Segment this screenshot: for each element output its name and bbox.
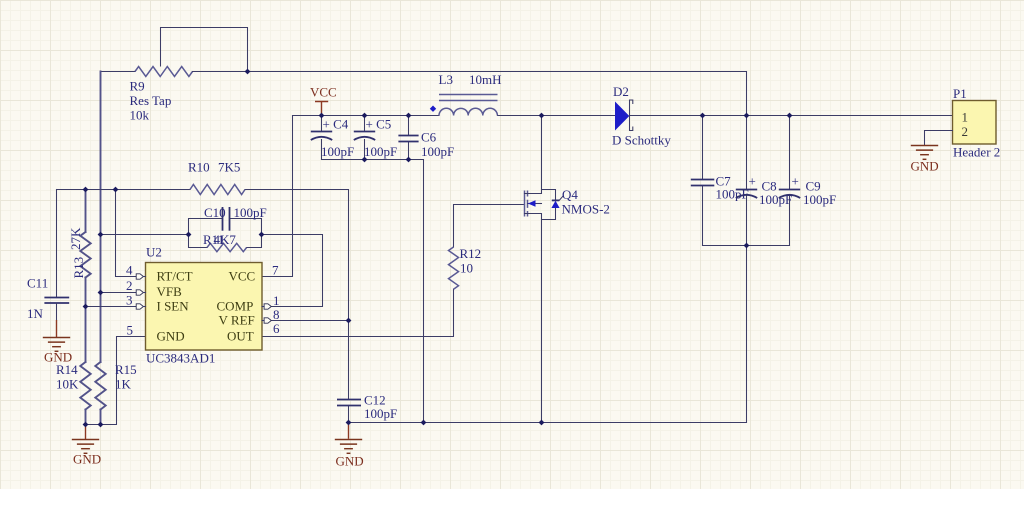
wire: C11 branch (56, 190, 58, 298)
resistor R13 (80, 232, 90, 278)
svg-text:10K: 10K (56, 377, 79, 392)
svg-text:27K: 27K (68, 227, 83, 250)
junction: rail / x747 bus (744, 113, 750, 119)
wire: C5 leads (364, 116, 366, 160)
capacitor C11 (44, 297, 69, 299)
wire: C6 leads (408, 116, 410, 160)
wire: C4 leads (321, 116, 323, 160)
wire: C12 bottom lead (348, 406, 350, 423)
ground under C11 (43, 337, 70, 339)
wire: bottom rail y=422.5 (349, 422, 747, 424)
svg-text:+: + (749, 174, 756, 189)
IC U2 UC3843AD1 (146, 263, 263, 351)
svg-text:C10: C10 (204, 205, 226, 220)
resistor R9 (135, 67, 193, 77)
wire: cap bottom rail + bus down x=423.5 (322, 160, 424, 423)
junction: R15 bottom (98, 422, 104, 428)
junction: R9 loop / top rail (245, 69, 251, 75)
wire: GND pin5 to bottom rail (86, 337, 146, 425)
svg-text:1: 1 (962, 110, 969, 125)
wire: OUT pin6 to R12 (262, 289, 454, 336)
svg-text:1: 1 (273, 293, 280, 308)
wire: R15 bottom lead (100, 410, 102, 425)
svg-text:U2: U2 (146, 245, 162, 260)
svg-text:+ C4: + C4 (323, 117, 349, 132)
svg-text:100pF: 100pF (803, 192, 836, 207)
wire: vertical x=100.5 R9/VFB/R15 chain (100, 72, 102, 363)
svg-text:VCC: VCC (310, 85, 337, 100)
junction: VCC rail / C4 (319, 113, 325, 119)
ground at P1 (911, 145, 938, 147)
svg-text:1N: 1N (27, 306, 44, 321)
junction: bottom rail / C12 (346, 420, 352, 426)
svg-text:R13: R13 (71, 257, 86, 279)
svg-text:4K7: 4K7 (214, 232, 237, 247)
junction: C10-R11 right node (259, 232, 265, 238)
svg-text:C6: C6 (421, 130, 437, 145)
ground under C12 (348, 423, 350, 439)
capacitor C12 (337, 399, 361, 401)
wire: R9 left lead (101, 71, 136, 73)
svg-text:COMP: COMP (217, 299, 254, 314)
svg-text:OUT: OUT (227, 329, 254, 344)
junction: rail / Q4 drain (539, 113, 545, 119)
svg-text:NMOS-2: NMOS-2 (562, 202, 610, 217)
junction: cap rail / x747 bus (744, 243, 750, 249)
junction: cap rail / C6 (406, 157, 412, 163)
wire: R9 tap loop (161, 28, 248, 72)
transistor Q4 (524, 191, 526, 217)
wire: vertical x=348.5 R10/VREF/C12 (348, 190, 350, 400)
svg-text:C11: C11 (27, 276, 48, 291)
svg-text:RT/CT: RT/CT (157, 269, 193, 284)
svg-text:GND: GND (336, 454, 364, 469)
wire: top rail R9 to x=746.5 (248, 71, 747, 73)
capacitor C5 (354, 131, 375, 133)
svg-text:UC3843AD1: UC3843AD1 (146, 351, 215, 366)
resistor R11 (207, 243, 247, 251)
U2 pin arrows (136, 274, 143, 279)
junction: cap rail / C5 (362, 157, 368, 163)
junction: VFB pin2 (98, 290, 104, 296)
svg-text:GND: GND (73, 452, 101, 467)
wire: pin4 branch (116, 190, 146, 277)
wire: C7 branch (702, 116, 704, 246)
svg-text:100pF: 100pF (364, 144, 397, 159)
svg-text:+ C5: + C5 (366, 117, 392, 132)
svg-text:2: 2 (962, 124, 969, 139)
svg-text:10k: 10k (130, 108, 150, 123)
svg-text:4: 4 (126, 263, 133, 278)
svg-text:10mH: 10mH (469, 72, 502, 87)
svg-text:+: + (792, 174, 799, 189)
wire: VFB pin2 (101, 292, 146, 294)
junction: C10-R11 left node (186, 232, 192, 238)
wire: P1 pin2 to ground (925, 131, 953, 145)
svg-text:P1: P1 (953, 86, 967, 101)
resistor R10 (190, 185, 245, 195)
capacitor C4 (311, 131, 332, 133)
svg-text:100pF: 100pF (321, 144, 354, 159)
resistor R14 (80, 362, 90, 410)
svg-text:2: 2 (126, 278, 133, 293)
junction: bottom rail / cap bus (421, 420, 427, 426)
svg-text:GND: GND (44, 350, 72, 365)
junction: rail / C7 (700, 113, 706, 119)
svg-text:5: 5 (127, 323, 134, 338)
svg-text:GND: GND (911, 159, 939, 174)
wire: main rail y=115.5 (293, 115, 953, 117)
svg-text:10: 10 (460, 261, 473, 276)
junction: bottom rail / Q4 source (539, 420, 545, 426)
junction: rail / C9 (787, 113, 793, 119)
wire: ISEN pin3 (86, 306, 146, 308)
junction: rail / C6 (406, 113, 412, 119)
junction: R10 wire / pin4 branch (113, 187, 119, 193)
wire: R13 chain verticals (85, 190, 87, 233)
junction: ISEN pin3 (83, 304, 89, 310)
wire: loop right node to COMP pin1 (262, 235, 323, 307)
svg-text:R12: R12 (460, 246, 482, 261)
svg-text:R9: R9 (130, 79, 145, 94)
svg-text:1K: 1K (115, 377, 132, 392)
capacitor C8 (736, 189, 757, 191)
wire: x=746.5 vertical top (746, 72, 748, 190)
junction: VFB bus / C10 net (98, 232, 104, 238)
wire: output caps bottom rail y=245.5 (703, 245, 790, 247)
svg-text:D Schottky: D Schottky (612, 133, 671, 148)
capacitor C7 (691, 179, 715, 181)
junction: R14 bottom (83, 422, 89, 428)
svg-text:100pF: 100pF (234, 205, 267, 220)
svg-text:100pF: 100pF (421, 144, 454, 159)
svg-text:L3: L3 (439, 72, 453, 87)
svg-text:100pF: 100pF (364, 406, 397, 421)
header P1 (953, 101, 997, 145)
svg-text:I SEN: I SEN (157, 299, 190, 314)
svg-text:Q4: Q4 (562, 187, 578, 202)
svg-text:7K5: 7K5 (218, 160, 240, 175)
power VCC (315, 102, 328, 116)
capacitor C10 (222, 207, 224, 231)
diode D2 (615, 102, 629, 131)
svg-text:VFB: VFB (157, 284, 183, 299)
svg-text:7: 7 (272, 263, 279, 278)
capacitor C9 (779, 189, 800, 191)
svg-text:V REF: V REF (219, 313, 255, 328)
ground under R14/R15 (85, 425, 87, 440)
wire: VCC pin7 riser (262, 116, 293, 277)
svg-text:R10: R10 (188, 160, 210, 175)
svg-text:GND: GND (157, 329, 185, 344)
svg-text:6: 6 (273, 321, 280, 336)
svg-text:8: 8 (273, 307, 280, 322)
svg-text:R15: R15 (115, 362, 137, 377)
wire: C10/R11 loop frame (189, 219, 262, 248)
wire: C10/R11 net from VFB vertical (101, 234, 189, 236)
svg-text:VCC: VCC (229, 269, 256, 284)
wire: R12 top to Q4 gate (454, 205, 525, 248)
wire: VREF pin8 (262, 320, 349, 322)
svg-text:Header 2: Header 2 (953, 145, 1000, 160)
wire: C9 branch (789, 116, 791, 246)
junction: rail / C5 (362, 113, 368, 119)
svg-text:Res Tap: Res Tap (130, 93, 172, 108)
junction: VREF pin8 (346, 318, 352, 324)
inductor L3 (439, 94, 498, 96)
junction: R10 wire / R13 (83, 187, 89, 193)
capacitor C6 (398, 135, 418, 137)
svg-text:D2: D2 (613, 84, 629, 99)
svg-text:3: 3 (126, 293, 133, 308)
wire: R10 row y=189.5 (57, 189, 349, 191)
wire: x=746.5 vertical bottom (746, 196, 748, 423)
resistor R12 (449, 247, 459, 289)
resistor R15 (95, 362, 105, 410)
